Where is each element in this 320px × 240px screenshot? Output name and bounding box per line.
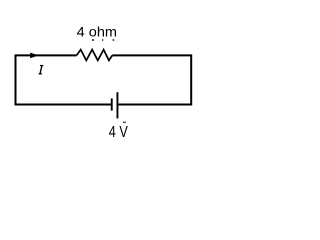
svg-text:4 ohm: 4 ohm (77, 23, 117, 39)
svg-text:4 V: 4 V (109, 124, 128, 141)
